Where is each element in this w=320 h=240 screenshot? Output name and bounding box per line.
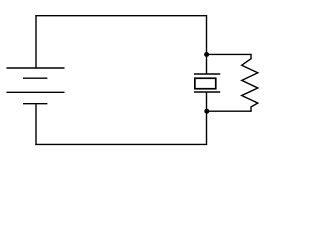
wire left lower (battery - to bottom rail) <box>35 104 37 145</box>
wire bottom rail <box>35 143 207 145</box>
node A junction dot <box>204 52 209 57</box>
node B junction dot <box>204 109 209 114</box>
wire right upper (top rail to node A) <box>206 16 208 74</box>
wire node A to resistor top <box>207 53 252 55</box>
crystal <box>194 74 220 92</box>
wire left upper (battery + to top rail) <box>35 16 37 69</box>
wire node B to resistor bottom <box>207 110 252 112</box>
wire top rail <box>35 15 207 17</box>
resistor <box>242 54 258 111</box>
battery <box>7 68 65 104</box>
wire right lower (node B to bottom rail) <box>206 92 208 144</box>
